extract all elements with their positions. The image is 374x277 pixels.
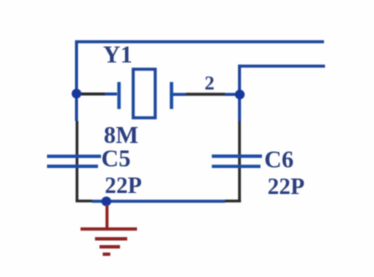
svg-text:C6: C6: [264, 147, 293, 173]
svg-text:22P: 22P: [268, 174, 305, 199]
svg-text:C5: C5: [101, 146, 130, 172]
svg-text:8M: 8M: [104, 123, 139, 149]
svg-text:22P: 22P: [105, 173, 142, 198]
svg-text:2: 2: [205, 73, 215, 95]
svg-text:Y1: Y1: [103, 42, 132, 68]
